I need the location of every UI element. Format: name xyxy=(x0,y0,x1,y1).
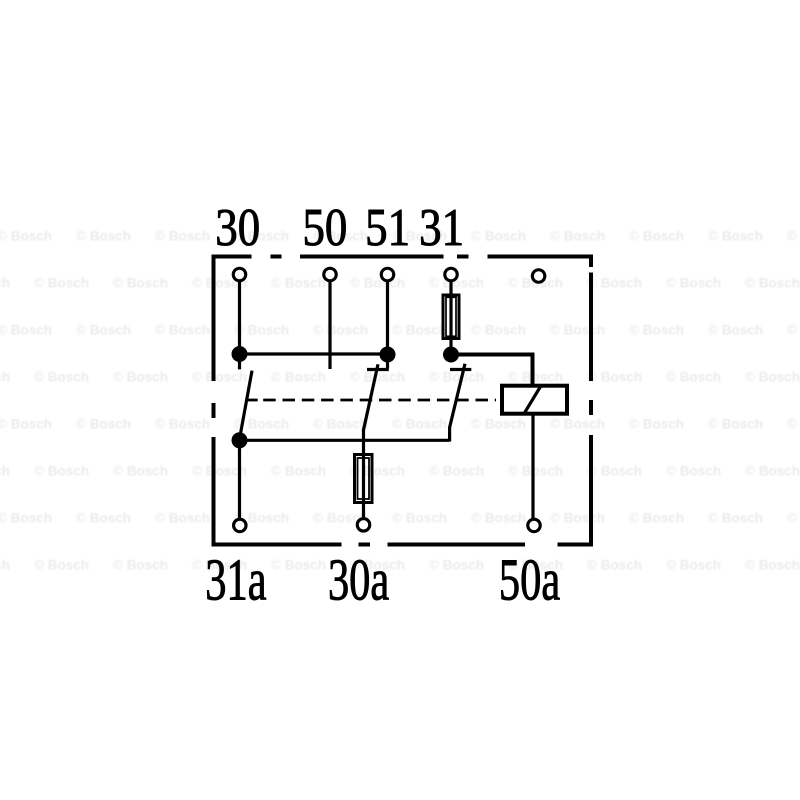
switch contact arm (30 to 31a) xyxy=(240,371,252,438)
mechanical linkage dashed line xyxy=(247,399,496,402)
svg-text:© Bosch: © Bosch xyxy=(508,370,563,385)
junction dot 31/coil xyxy=(443,347,459,363)
svg-text:© Bosch: © Bosch xyxy=(708,323,763,338)
svg-text:© Bosch: © Bosch xyxy=(471,417,526,432)
wire from terminal 51 down to junction xyxy=(386,282,389,369)
terminal 30 (top circle) xyxy=(233,268,246,281)
svg-text:© Bosch: © Bosch xyxy=(0,558,10,573)
svg-text:© Bosch: © Bosch xyxy=(471,323,526,338)
svg-text:© Bosch: © Bosch xyxy=(192,370,247,385)
switch contact arm (51 to 30a) xyxy=(364,364,378,429)
terminal 50a (bottom circle) xyxy=(528,519,541,532)
svg-text:© Bosch: © Bosch xyxy=(787,323,800,338)
fixed contact tick 51 xyxy=(367,368,389,371)
svg-text:© Bosch: © Bosch xyxy=(429,464,484,479)
svg-text:© Bosch: © Bosch xyxy=(666,276,721,291)
svg-text:© Bosch: © Bosch xyxy=(708,417,763,432)
svg-text:© Bosch: © Bosch xyxy=(550,511,605,526)
svg-text:© Bosch: © Bosch xyxy=(666,464,721,479)
wire from relay coil to terminal 50a xyxy=(531,414,534,518)
svg-text:51: 51 xyxy=(365,198,410,257)
svg-text:© Bosch: © Bosch xyxy=(629,511,684,526)
svg-text:© Bosch: © Bosch xyxy=(787,229,800,244)
svg-text:© Bosch: © Bosch xyxy=(155,417,210,432)
wire from terminal 30 down to junction xyxy=(238,282,241,369)
svg-text:© Bosch: © Bosch xyxy=(550,229,605,244)
unused top terminal circle xyxy=(532,270,545,283)
svg-text:50: 50 xyxy=(302,198,347,257)
junction dot 30/bus xyxy=(232,346,248,362)
svg-text:© Bosch: © Bosch xyxy=(0,417,52,432)
terminal 31a (bottom circle) xyxy=(234,519,247,532)
svg-text:© Bosch: © Bosch xyxy=(350,276,405,291)
terminal 50 (top circle) xyxy=(324,268,337,281)
svg-text:© Bosch: © Bosch xyxy=(708,229,763,244)
svg-text:© Bosch: © Bosch xyxy=(34,558,89,573)
svg-text:© Bosch: © Bosch xyxy=(0,511,52,526)
svg-text:© Bosch: © Bosch xyxy=(271,370,326,385)
svg-text:© Bosch: © Bosch xyxy=(113,464,168,479)
svg-text:© Bosch: © Bosch xyxy=(392,323,447,338)
wire from junction 31 to relay coil xyxy=(451,355,533,386)
svg-text:© Bosch: © Bosch xyxy=(34,464,89,479)
svg-text:© Bosch: © Bosch xyxy=(0,276,10,291)
svg-text:© Bosch: © Bosch xyxy=(587,276,642,291)
terminal 51 (top circle) xyxy=(381,268,394,281)
svg-text:© Bosch: © Bosch xyxy=(787,511,800,526)
junction dot 51/bus xyxy=(380,347,396,363)
fuse F1 (terminal 31) xyxy=(443,295,459,339)
svg-text:© Bosch: © Bosch xyxy=(76,417,131,432)
svg-text:© Bosch: © Bosch xyxy=(745,558,800,573)
svg-text:© Bosch: © Bosch xyxy=(629,229,684,244)
svg-text:30: 30 xyxy=(215,198,260,257)
wire from terminal 31 through fuse to junction xyxy=(449,282,452,355)
svg-text:© Bosch: © Bosch xyxy=(113,276,168,291)
svg-text:© Bosch: © Bosch xyxy=(550,323,605,338)
svg-text:© Bosch: © Bosch xyxy=(550,417,605,432)
svg-text:© Bosch: © Bosch xyxy=(34,276,89,291)
svg-text:© Bosch: © Bosch xyxy=(629,417,684,432)
svg-text:© Bosch: © Bosch xyxy=(155,511,210,526)
watermark pattern xyxy=(0,229,800,573)
fixed contact tick 31 xyxy=(450,368,471,371)
wire switch to terminal 30a through fuse xyxy=(362,429,365,517)
svg-text:© Bosch: © Bosch xyxy=(0,229,52,244)
terminal 31 (top circle) xyxy=(445,268,458,281)
svg-text:© Bosch: © Bosch xyxy=(745,464,800,479)
junction dot 31a/lower bus xyxy=(232,432,248,448)
svg-text:© Bosch: © Bosch xyxy=(587,558,642,573)
svg-text:© Bosch: © Bosch xyxy=(155,229,210,244)
svg-text:© Bosch: © Bosch xyxy=(271,276,326,291)
relay coil K1 xyxy=(502,386,567,414)
svg-text:© Bosch: © Bosch xyxy=(587,370,642,385)
svg-text:© Bosch: © Bosch xyxy=(113,370,168,385)
svg-text:© Bosch: © Bosch xyxy=(0,464,10,479)
svg-text:30a: 30a xyxy=(328,548,389,613)
svg-text:© Bosch: © Bosch xyxy=(745,276,800,291)
svg-text:© Bosch: © Bosch xyxy=(313,417,368,432)
svg-text:© Bosch: © Bosch xyxy=(76,229,131,244)
switch contact arm (31 to lower bus) xyxy=(450,364,465,442)
svg-text:50a: 50a xyxy=(499,548,560,613)
svg-text:© Bosch: © Bosch xyxy=(0,370,10,385)
svg-text:© Bosch: © Bosch xyxy=(429,558,484,573)
svg-text:© Bosch: © Bosch xyxy=(429,370,484,385)
svg-text:© Bosch: © Bosch xyxy=(629,323,684,338)
svg-text:© Bosch: © Bosch xyxy=(234,323,289,338)
fuse F2 (terminal 30a) xyxy=(355,455,373,503)
svg-text:© Bosch: © Bosch xyxy=(708,511,763,526)
svg-text:© Bosch: © Bosch xyxy=(392,511,447,526)
svg-text:31a: 31a xyxy=(205,548,266,613)
svg-text:© Bosch: © Bosch xyxy=(271,464,326,479)
svg-text:© Bosch: © Bosch xyxy=(271,558,326,573)
wire bus 30-51 xyxy=(240,352,388,355)
svg-text:© Bosch: © Bosch xyxy=(313,323,368,338)
wire junction to terminal 31a xyxy=(238,440,241,518)
svg-text:© Bosch: © Bosch xyxy=(113,558,168,573)
lower wire bus 31a xyxy=(240,439,450,442)
svg-text:© Bosch: © Bosch xyxy=(471,511,526,526)
svg-text:© Bosch: © Bosch xyxy=(76,323,131,338)
svg-text:© Bosch: © Bosch xyxy=(76,511,131,526)
svg-text:© Bosch: © Bosch xyxy=(666,370,721,385)
svg-text:© Bosch: © Bosch xyxy=(587,464,642,479)
svg-text:© Bosch: © Bosch xyxy=(392,417,447,432)
svg-text:© Bosch: © Bosch xyxy=(0,323,52,338)
svg-text:© Bosch: © Bosch xyxy=(155,323,210,338)
relay housing outline (dashed frame) xyxy=(212,255,594,547)
svg-text:© Bosch: © Bosch xyxy=(471,229,526,244)
svg-text:© Bosch: © Bosch xyxy=(508,464,563,479)
terminal 30a (bottom circle) xyxy=(357,519,370,532)
svg-text:© Bosch: © Bosch xyxy=(787,417,800,432)
svg-text:© Bosch: © Bosch xyxy=(666,558,721,573)
svg-text:© Bosch: © Bosch xyxy=(745,370,800,385)
svg-text:31: 31 xyxy=(419,198,464,257)
svg-text:© Bosch: © Bosch xyxy=(34,370,89,385)
wire from terminal 50 xyxy=(328,282,331,369)
